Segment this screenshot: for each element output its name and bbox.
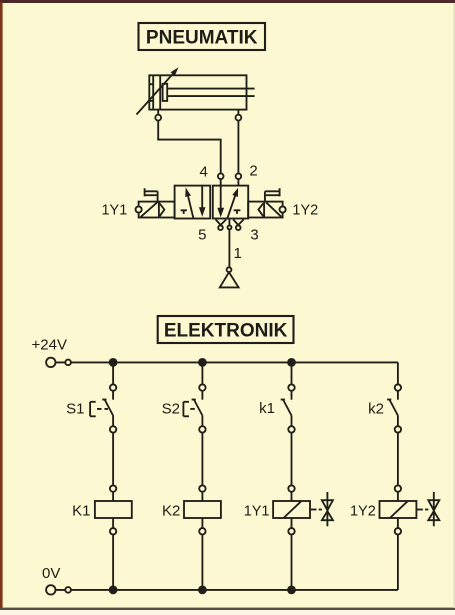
cylinder port left [155, 110, 161, 121]
cylinder port right [236, 110, 242, 121]
valve port 4 node [218, 173, 224, 185]
svg-text:1Y2: 1Y2 [350, 503, 376, 519]
wire cylinder left port to valve port 4 [158, 121, 221, 174]
valve 1V1 right position box [213, 186, 248, 219]
wire branch3 top [291, 362, 293, 384]
exhaust port 5 [216, 219, 227, 230]
switch S1 (NO pushbutton) [90, 384, 116, 432]
wire cylinder right port to valve port 2 [237, 121, 239, 174]
wire k2 to 1Y2 [397, 433, 399, 486]
window border bottom [0, 608, 455, 610]
wire 1Y1 to 0V [291, 535, 293, 590]
window border left [0, 2, 3, 610]
wire branch4 top [397, 362, 399, 384]
svg-text:k2: k2 [368, 400, 384, 417]
svg-text:S1: S1 [66, 400, 84, 417]
svg-text:S2: S2 [162, 400, 180, 417]
title box ELEKTRONIK [158, 316, 294, 343]
svg-text:K2: K2 [162, 502, 180, 519]
junction node rail-branch2 [198, 358, 207, 367]
0V rail [56, 589, 398, 591]
window border top [0, 0, 455, 3]
junction node 0V-branch3 [287, 586, 296, 595]
air supply [220, 267, 239, 287]
+24V terminal [46, 358, 71, 367]
wire branch1 top [112, 362, 114, 384]
exhaust port 3 [233, 219, 244, 230]
svg-text:0V: 0V [42, 565, 60, 582]
svg-text:+24V: +24V [32, 336, 67, 353]
wire 1Y2 to 0V [397, 535, 399, 590]
svg-text:3: 3 [250, 227, 258, 244]
cylinder piston [149, 75, 160, 109]
wire branch2 top [201, 362, 203, 384]
svg-text:2: 2 [249, 163, 257, 180]
junction node 0V-branch2 [198, 586, 207, 595]
relay contact k1 (NO) [281, 384, 295, 432]
svg-text:1Y1: 1Y1 [244, 503, 270, 519]
svg-text:1Y2: 1Y2 [292, 202, 318, 218]
svg-text:ELEKTRONIK: ELEKTRONIK [164, 320, 288, 341]
switch S2 (NO pushbutton) [183, 384, 205, 432]
svg-text:5: 5 [198, 227, 206, 244]
relay coil K1 [95, 485, 132, 534]
valve link indicator 1Y2 [416, 492, 439, 526]
cylinder 1A body [149, 75, 246, 109]
valve 1V1 left position box [175, 186, 211, 219]
wire S2 to K2 [201, 433, 203, 486]
window border right [453, 3, 455, 608]
valve port 1 node [228, 219, 232, 268]
solenoid 1Y2 [248, 188, 286, 217]
svg-text:1Y1: 1Y1 [101, 202, 127, 218]
junction node rail-branch1 [109, 358, 118, 367]
wire K1 to 0V [112, 535, 114, 590]
wire S1 to K1 [112, 433, 114, 486]
junction node 0V-branch1 [109, 586, 118, 595]
svg-text:K1: K1 [72, 502, 90, 519]
valve port 2 node [236, 173, 242, 185]
wire k1 to 1Y1 [291, 433, 293, 486]
+24V rail [56, 361, 398, 363]
cushioning adjust arrow [137, 67, 179, 114]
solenoid 1Y1 [136, 188, 175, 217]
relay coil K2 [184, 485, 221, 534]
valve link indicator 1Y1 [310, 492, 333, 526]
junction node rail-branch3 [287, 358, 296, 367]
svg-text:1: 1 [234, 245, 242, 262]
0V terminal [46, 585, 71, 594]
svg-text:4: 4 [200, 163, 208, 180]
svg-text:PNEUMATIK: PNEUMATIK [146, 27, 258, 48]
solenoid coil 1Y2 [380, 485, 417, 534]
title box PNEUMATIK [139, 23, 266, 50]
cylinder piston rod [163, 84, 255, 101]
relay contact k2 (NO) [387, 384, 401, 432]
svg-text:k1: k1 [259, 400, 275, 417]
solenoid coil 1Y1 [273, 485, 310, 534]
wire K2 to 0V [201, 535, 203, 590]
